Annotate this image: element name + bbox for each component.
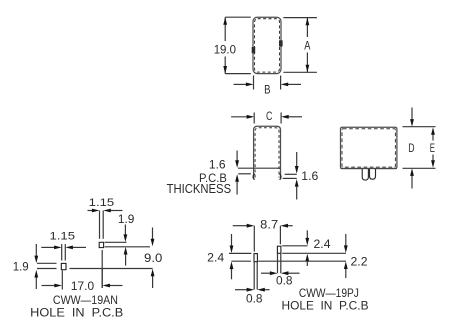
svg-text:2.4: 2.4	[207, 250, 224, 264]
svg-text:HOLE IN P.C.B: HOLE IN P.C.B	[282, 298, 369, 312]
svg-text:1.9: 1.9	[118, 212, 134, 226]
svg-text:0.8: 0.8	[246, 291, 263, 305]
svg-text:1.6: 1.6	[209, 158, 226, 172]
svg-text:1.15: 1.15	[50, 230, 76, 242]
svg-text:17.0: 17.0	[71, 279, 95, 293]
svg-text:2.2: 2.2	[351, 255, 368, 269]
svg-text:19.0: 19.0	[214, 42, 237, 56]
svg-text:9.0: 9.0	[144, 251, 163, 265]
svg-text:B: B	[264, 82, 270, 96]
svg-text:C: C	[266, 109, 273, 123]
svg-text:D: D	[408, 141, 414, 155]
svg-text:1.15: 1.15	[89, 197, 115, 209]
svg-text:E: E	[430, 141, 435, 155]
svg-text:1.6: 1.6	[301, 169, 318, 183]
svg-text:HOLE IN P.C.B: HOLE IN P.C.B	[30, 306, 123, 320]
svg-text:8.7: 8.7	[260, 218, 278, 232]
svg-text:1.9: 1.9	[13, 260, 29, 274]
svg-text:A: A	[304, 39, 311, 53]
svg-text:THICKNESS: THICKNESS	[167, 182, 232, 196]
svg-text:0.8: 0.8	[276, 274, 293, 288]
svg-text:2.4: 2.4	[314, 237, 331, 251]
